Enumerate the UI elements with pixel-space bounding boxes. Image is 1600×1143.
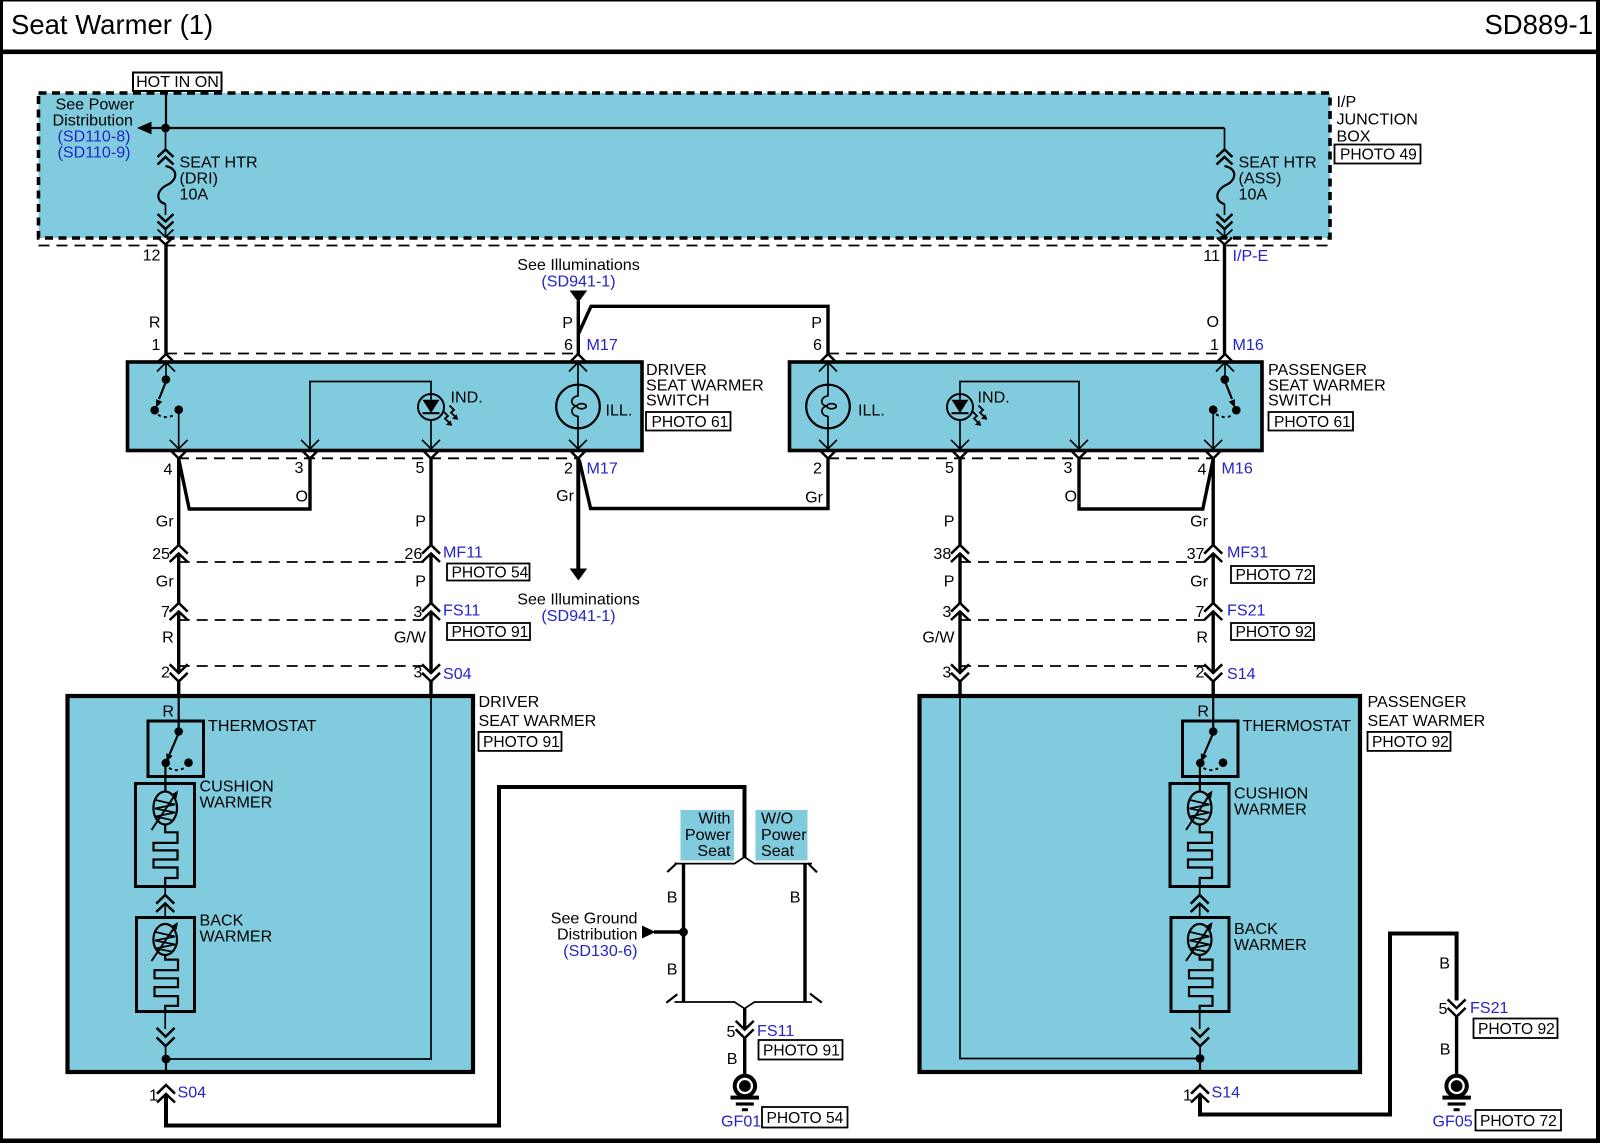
svg-text:FS21: FS21 [1227,602,1266,620]
svg-text:7: 7 [1196,603,1205,621]
svg-text:WARMER: WARMER [1234,801,1307,819]
back warmer heater (passenger) [1171,918,1229,1012]
svg-text:M16: M16 [1222,460,1253,478]
driver switch connector dashed line (top) [166,353,578,355]
PHOTO 54 box [447,564,530,582]
svg-text:JUNCTION: JUNCTION [1337,111,1418,129]
svg-text:B: B [1439,955,1450,973]
svg-text:3: 3 [413,664,422,682]
PASSENGER SEAT WARMER label [1368,693,1486,730]
chevrons below back warmer (passenger) [1191,1012,1209,1056]
svg-text:BOX: BOX [1337,128,1371,146]
wire from HOT IN ON down into I/P box [165,91,167,124]
svg-text:4: 4 [1198,461,1207,479]
switch blade (passenger) [1209,362,1241,448]
BACK WARMER label (passenger) [1234,920,1307,954]
connector FS21 pin 3 chevrons [951,603,969,620]
svg-text:(SD941-1): (SD941-1) [541,273,615,291]
svg-text:R: R [149,314,161,332]
fuse SEAT HTR (DRI) 10A [158,128,258,237]
page border left [0,0,3,1143]
wire P driver pin5 down [429,459,432,546]
wire Gr passenger pin4 down [1211,459,1214,546]
PHOTO 92 box (FS21 ground) [1474,1019,1558,1039]
page border bottom [0,1139,1600,1143]
svg-text:IND.: IND. [451,389,483,407]
wire B to ground GF01 [743,1038,746,1076]
svg-text:Gr: Gr [156,573,175,591]
svg-text:10A: 10A [180,186,209,204]
wire O jog pin3 to pin4 (passenger) [1079,459,1213,509]
connector MF11 pin 26 chevrons [422,545,440,562]
svg-text:Gr: Gr [805,489,824,507]
See Power Distribution note [53,96,135,162]
wire O jog pin4 to pin3 (driver) [179,459,310,509]
connector FS21 pin 7 chevrons [1204,603,1222,620]
svg-text:P: P [811,314,822,332]
ground wire from S04 to option brackets [166,787,745,1126]
PHOTO 91 box (FS11 ground) [759,1040,843,1060]
wire P jog from driver pin 6 to passenger pin 6 [579,306,828,354]
wire down from driver pin 2 to See Illuminations [576,459,580,570]
svg-text:26: 26 [404,545,422,563]
pin 1 entry chevrons (passenger) [1216,354,1234,372]
svg-text:SEAT WARMER: SEAT WARMER [1368,712,1486,730]
passenger switch connector dashed line (bottom) [828,457,1213,459]
in-line connector MF11 row dashed line [179,561,431,563]
svg-text:Seat Warmer (1): Seat Warmer (1) [11,9,213,40]
connector MF31 pin 38 chevrons [951,545,969,562]
wire R from pin 12 to driver switch pin 1 [164,245,167,355]
svg-text:P: P [415,573,426,591]
svg-text:O: O [1064,488,1077,506]
svg-text:2: 2 [1196,664,1205,682]
ground wire from S14 to FS21 [1200,934,1457,1115]
svg-text:11: 11 [1203,247,1220,265]
svg-text:2: 2 [564,460,573,478]
connector S14 pin 2 chevrons [1204,664,1222,681]
svg-text:5: 5 [945,459,954,477]
BACK WARMER label (driver) [200,912,273,946]
svg-text:G/W: G/W [922,629,955,647]
connector MF31 pin 37 chevrons [1204,545,1222,562]
pin 11 exit chevrons of I/P box [1217,230,1233,245]
svg-text:Gr: Gr [156,513,175,531]
ground GF05 [1442,1076,1471,1111]
svg-text:PHOTO 72: PHOTO 72 [1480,1113,1557,1130]
in-line connector FS21 row dashed line [960,619,1213,621]
switch blade (driver) [150,362,183,448]
in-line connector MF31 row dashed line [960,561,1213,563]
svg-text:Seat: Seat [761,842,795,860]
connector FS21 pin 5 chevrons [1448,999,1466,1016]
svg-text:IND.: IND. [978,389,1010,407]
junction node ground distribution tap [679,928,688,937]
svg-text:SWITCH: SWITCH [646,391,709,409]
svg-text:PHOTO 92: PHOTO 92 [1372,734,1449,751]
chevrons below back warmer (driver) [157,1012,175,1056]
fuse SEAT HTR (ASS) 10A [1217,128,1317,237]
wire P between MF31 and FS21 [958,554,961,604]
svg-text:6: 6 [813,336,822,354]
svg-text:See Illuminations: See Illuminations [517,591,640,609]
svg-text:Gr: Gr [556,487,575,505]
in-line connector S14 row dashed line [960,665,1213,667]
wire O from pin 11 to passenger switch pin 1 [1223,245,1226,355]
svg-text:I/P-E: I/P-E [1233,247,1269,265]
svg-text:S04: S04 [178,1084,207,1102]
svg-text:S14: S14 [1212,1084,1241,1102]
driver switch connector dashed line (bottom) [178,457,578,459]
indicator LED IND. (passenger) [947,382,1079,449]
connector FS11 pin 5 chevrons [736,1021,754,1038]
wire Gr between MF31 and FS21 [1211,554,1214,604]
svg-text:With: With [698,810,730,828]
svg-text:ILL.: ILL. [606,402,633,420]
I/P junction box connector interface dashed line (pins 12 / 11) [39,245,1331,247]
svg-text:1: 1 [1183,1087,1192,1105]
W/O Power Seat option label [756,810,808,861]
svg-text:S14: S14 [1227,665,1256,683]
svg-text:PHOTO 54: PHOTO 54 [452,565,529,582]
svg-text:2: 2 [161,664,170,682]
svg-text:(SD941-1): (SD941-1) [541,607,615,625]
svg-text:HOT IN ON: HOT IN ON [136,73,219,91]
svg-text:PHOTO 54: PHOTO 54 [767,1110,844,1127]
PASSENGER SEAT WARMER SWITCH label [1268,361,1386,410]
PHOTO 92 box (FS21) [1231,623,1314,641]
wire to FS11 ground connector [743,1008,746,1030]
wire Gr between MF11 and FS11 [177,554,180,604]
connector S04 pin 3 chevrons [422,664,440,681]
inner return wire (driver box) [166,697,431,1059]
driver seat warmer switch box [128,362,643,451]
svg-text:S04: S04 [443,665,472,683]
DRIVER SEAT WARMER label [479,693,597,730]
wire into driver seat warmer box (left) [177,682,180,698]
svg-text:3: 3 [295,459,304,477]
inner return wire (passenger box) [960,697,1200,1059]
svg-text:DRIVER: DRIVER [479,693,540,711]
svg-text:GF01: GF01 [721,1113,761,1131]
driver switch bottom pin chevrons 4,3,5,2 [170,440,587,459]
svg-text:(SD130-6): (SD130-6) [563,942,637,960]
svg-text:PHOTO 61: PHOTO 61 [652,414,729,431]
With Power Seat option label [681,810,735,861]
I/P JUNCTION BOX label [1337,93,1418,146]
svg-text:2: 2 [813,460,822,478]
svg-text:PHOTO 72: PHOTO 72 [1236,567,1313,584]
wire into passenger seat warmer box (right) [1211,682,1214,698]
junction node in passenger warmer box [1196,1054,1205,1063]
PHOTO 72 box (GF05) [1476,1110,1562,1131]
PHOTO 54 box (GF01) [762,1107,848,1128]
svg-text:10A: 10A [1239,186,1268,204]
passenger switch connector dashed line (top) [828,353,1225,355]
svg-text:4: 4 [164,461,173,479]
svg-text:ILL.: ILL. [858,402,885,420]
CUSHION WARMER label (driver) [200,778,274,812]
See Ground Distribution note [551,910,684,961]
wire from junction to box edge [1199,1059,1201,1074]
svg-text:R: R [1196,629,1208,647]
svg-text:M16: M16 [1233,336,1264,354]
svg-text:1: 1 [149,1087,158,1105]
svg-text:Distribution: Distribution [557,926,638,944]
connector S14 pin 1 chevrons [1191,1085,1209,1103]
svg-text:37: 37 [1187,545,1205,563]
See Illuminations note (bottom) [517,569,640,626]
svg-text:MF11: MF11 [443,544,483,562]
wire Gr driver pin4 down [177,459,180,546]
svg-text:1: 1 [1210,336,1219,354]
connector MF11 pin 25 chevrons [170,545,188,562]
option split bracket (top) [667,857,817,872]
passenger seat warmer switch box [790,362,1263,451]
connector chevrons between cushion and back warmer (passenger) [1191,887,1209,918]
junction node in driver warmer box [162,1055,171,1064]
in-line connector FS11 row dashed line [179,619,431,621]
indicator LED IND. (driver) [310,382,483,449]
wire P from illumination arrow to driver pin 6 [577,301,580,354]
thermostat (driver) [148,721,204,792]
wire B to ground GF05 [1455,1017,1458,1077]
svg-text:THERMOSTAT: THERMOSTAT [208,717,317,735]
svg-text:B: B [727,1050,738,1068]
svg-text:W/O: W/O [761,810,793,828]
wire R between FS21 and S14 [1211,612,1214,674]
connector S04 pin 2 chevrons [170,664,188,681]
svg-text:P: P [415,513,426,531]
wire G/W between FS21 and S14 [958,612,961,674]
svg-text:12: 12 [143,247,161,265]
connector S14 pin 3 chevrons [951,664,969,681]
svg-text:M17: M17 [587,460,618,478]
svg-text:PHOTO 91: PHOTO 91 [763,1043,840,1060]
svg-text:5: 5 [727,1023,736,1041]
svg-text:PHOTO 92: PHOTO 92 [1236,624,1313,641]
svg-text:MF31: MF31 [1227,544,1268,562]
svg-text:FS21: FS21 [1470,999,1509,1017]
svg-text:B: B [667,961,678,979]
svg-text:5: 5 [1439,1000,1448,1018]
svg-text:PHOTO 91: PHOTO 91 [483,734,560,751]
PHOTO 61 box (driver) [646,412,731,431]
option merge bracket (bottom) [666,994,822,1009]
svg-text:3: 3 [413,603,422,621]
svg-text:WARMER: WARMER [200,794,273,812]
PHOTO 61 box (passenger) [1269,412,1354,431]
ground GF01 [731,1076,760,1111]
svg-text:WARMER: WARMER [1234,936,1307,954]
back warmer heater (driver) [137,918,195,1012]
svg-text:P: P [944,513,955,531]
See Illuminations note (top) [517,256,640,303]
svg-text:PHOTO 91: PHOTO 91 [452,624,529,641]
connector S04 pin 1 chevrons [157,1085,175,1103]
svg-text:25: 25 [152,545,170,563]
svg-text:FS11: FS11 [443,602,480,620]
svg-text:PHOTO 49: PHOTO 49 [1340,147,1417,164]
svg-text:R: R [162,703,174,721]
svg-text:3: 3 [942,664,951,682]
svg-text:Gr: Gr [1190,573,1209,591]
svg-text:FS11: FS11 [757,1022,794,1040]
svg-text:G/W: G/W [394,629,427,647]
svg-text:THERMOSTAT: THERMOSTAT [1243,717,1352,735]
I/P junction box (dashed cyan box) [39,93,1331,238]
wire into driver seat warmer box (right) [429,682,432,698]
svg-text:PASSENGER: PASSENGER [1368,693,1467,711]
wire R between FS11 and S04 [177,612,180,674]
illumination lamp ILL. (passenger) [806,362,885,448]
svg-text:R: R [1197,703,1209,721]
connector FS11 pin 7 chevrons [170,603,188,620]
svg-text:5: 5 [416,459,425,477]
page border top [0,0,1600,2]
wire into passenger seat warmer box (left) [958,682,961,698]
svg-text:PHOTO 61: PHOTO 61 [1274,414,1351,431]
wire P between MF11 and FS11 [429,554,432,604]
option branch wire B (with power seat) [682,864,685,1002]
in-line connector S04 row dashed line [179,665,431,667]
svg-text:WARMER: WARMER [200,928,273,946]
passenger seat warmer box [920,696,1361,1072]
svg-text:(SD110-9): (SD110-9) [58,144,131,162]
svg-text:See Illuminations: See Illuminations [517,256,640,274]
wire Gr jog from driver pin 2 to passenger pin 2 [579,459,828,509]
svg-text:Gr: Gr [1190,513,1209,531]
svg-text:B: B [667,889,678,907]
CUSHION WARMER label (passenger) [1234,785,1308,819]
PHOTO 72 box (MF31) [1231,566,1314,584]
svg-text:O: O [1206,313,1219,331]
svg-text:Seat: Seat [697,842,731,860]
PHOTO 91 box (FS11) [447,623,530,641]
arrow to See Power Distribution [137,122,162,135]
node: feeder junction dot [161,124,170,133]
svg-text:P: P [944,573,955,591]
svg-text:3: 3 [942,603,951,621]
svg-text:P: P [562,314,573,332]
connector chevrons between cushion and back warmer (driver) [156,887,174,918]
HOT IN ON label box [133,73,222,92]
passenger switch bottom pin chevrons 2,5,3,4 [819,440,1222,459]
svg-text:SD889-1: SD889-1 [1484,9,1593,40]
wire R inside box (passenger) [1212,698,1214,728]
cushion warmer heater (driver) [136,784,195,887]
svg-text:PHOTO 92: PHOTO 92 [1478,1021,1555,1038]
pin 12 exit chevrons of I/P box [158,230,174,245]
svg-text:38: 38 [933,545,951,563]
pin 6 entry chevrons (passenger) [819,354,837,372]
svg-text:O: O [295,488,308,506]
title separator rule [0,50,1600,55]
DRIVER SEAT WARMER SWITCH label [646,361,764,410]
PHOTO 92 box (passenger warmer) [1368,732,1451,751]
illumination lamp ILL. (driver) [556,354,632,449]
svg-text:I/P: I/P [1337,93,1357,111]
svg-text:3: 3 [1064,459,1073,477]
PHOTO 49 box [1335,145,1421,164]
page border right [1596,0,1600,1143]
feeder wire across I/P box [166,127,1225,129]
svg-text:7: 7 [161,603,170,621]
svg-text:R: R [162,629,174,647]
PHOTO 91 box (driver warmer) [479,732,562,751]
svg-text:M17: M17 [587,336,618,354]
connector FS11 pin 3 chevrons [422,603,440,620]
option branch wire B (w/o power seat) [803,864,806,1002]
svg-text:6: 6 [564,336,573,354]
svg-text:SEAT WARMER: SEAT WARMER [479,712,597,730]
thermostat (passenger) [1183,721,1239,792]
cushion warmer heater (passenger) [1170,784,1229,887]
wire P passenger pin5 down [958,459,961,546]
wire R inside box (driver) [178,698,180,728]
driver seat warmer box [68,696,474,1072]
svg-text:1: 1 [152,336,161,354]
svg-text:SWITCH: SWITCH [1268,391,1331,409]
svg-text:B: B [790,889,801,907]
wire from junction to box edge [165,1059,167,1073]
pin 1 entry chevrons [157,354,175,372]
wire G/W between FS11 and S04 [429,612,432,674]
svg-text:B: B [1440,1041,1451,1059]
svg-text:GF05: GF05 [1433,1113,1473,1131]
